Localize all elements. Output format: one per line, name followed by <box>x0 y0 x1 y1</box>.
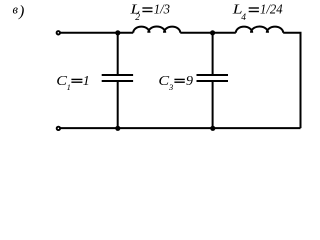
svg-text:1: 1 <box>67 82 71 92</box>
svg-text:4: 4 <box>241 13 246 23</box>
capacitor C1 <box>102 33 133 128</box>
capacitor C3 <box>197 33 229 128</box>
terminal: input top <box>57 31 60 34</box>
label C1=1 <box>56 74 90 92</box>
svg-text:9: 9 <box>186 74 193 89</box>
inductor L2 <box>133 27 180 33</box>
node: top junction of C3 <box>210 30 215 35</box>
node: top junction of C1 <box>115 30 120 35</box>
wire: top rail right segment + right side down <box>283 33 300 128</box>
terminal: input bottom <box>57 127 60 130</box>
svg-text:1: 1 <box>83 74 90 89</box>
wire: bottom rail <box>61 127 301 129</box>
svg-text:1/24: 1/24 <box>260 3 283 18</box>
wire: top rail left segment <box>60 32 133 34</box>
node: bottom junction of C3 <box>210 126 215 131</box>
svg-text:2: 2 <box>135 13 140 23</box>
label C3=9 <box>158 74 193 92</box>
label L4=1/24 <box>232 2 283 23</box>
inductor L4 <box>236 26 283 32</box>
svg-text:): ) <box>18 3 24 20</box>
node: bottom junction of C1 <box>115 126 120 131</box>
figure label в) <box>13 3 25 20</box>
label L2=1/3 <box>129 2 170 23</box>
wire: top rail middle segment <box>180 32 236 34</box>
svg-text:в: в <box>13 3 19 17</box>
svg-text:1/3: 1/3 <box>154 3 170 18</box>
svg-text:3: 3 <box>168 82 173 92</box>
